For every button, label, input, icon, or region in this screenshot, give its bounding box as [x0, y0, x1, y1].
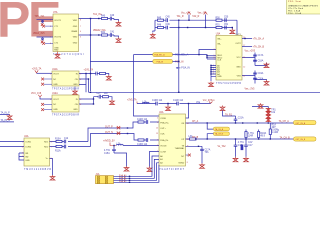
junction: [167, 103, 168, 104]
net label TA_CH_A: [213, 127, 229, 131]
junction: [93, 98, 94, 99]
resistor R26: [100, 72, 106, 74]
capacitor C45: [166, 18, 167, 22]
svg-text:U7A: U7A: [53, 11, 58, 14]
pin numbers U11A: [50, 73, 81, 81]
svg-text:PGA_A3: PGA_A3: [119, 180, 126, 183]
svg-text:C10R 114: C10R 114: [152, 100, 163, 102]
svg-text:C50: C50: [224, 17, 229, 19]
svg-text:U4A: U4A: [24, 135, 29, 138]
svg-text:Vss_-2V5: Vss_-2V5: [245, 89, 256, 91]
ground: [209, 82, 214, 87]
ground: [114, 153, 127, 166]
svg-text:R46: R46: [157, 25, 162, 27]
svg-text:1: 1: [50, 73, 51, 75]
ground: [200, 163, 205, 168]
svg-text:6: 6: [157, 145, 158, 147]
capacitor C11A: [177, 102, 178, 106]
svg-text:TA_CH_B: TA_CH_B: [215, 133, 224, 136]
ferrite mark: [116, 132, 120, 135]
svg-text:TR1: TR1: [271, 110, 276, 112]
wire U11A out right: [79, 74, 96, 93]
capacitor C17A: [253, 55, 257, 56]
regulator U12A: [52, 92, 79, 117]
svg-text:U12A: U12A: [52, 92, 58, 95]
svg-text:4.7TA: 4.7TA: [104, 149, 110, 152]
wire to PGA_IN label: [90, 60, 153, 62]
ground: [7, 114, 12, 119]
ground below U11A: [74, 87, 76, 90]
junction: [98, 34, 99, 35]
svg-text:VOUT1: VOUT1: [54, 20, 62, 22]
svg-text:4: 4: [80, 79, 81, 81]
resistor R41: [102, 34, 108, 36]
resistor R19A between rows: [269, 123, 271, 129]
junction: [178, 20, 179, 21]
svg-text:17: 17: [243, 45, 245, 47]
resistor R10A: [56, 140, 62, 142]
ground: [167, 104, 169, 106]
wire PGA_SEL to U3A: [173, 54, 208, 56]
wire A1: [114, 159, 160, 178]
svg-text:C17A: C17A: [205, 148, 211, 151]
wire U2A right lower to ground: [186, 146, 203, 163]
ground: [147, 167, 152, 172]
nc mark: [41, 41, 44, 44]
svg-text:+2V5_TA: +2V5_TA: [127, 99, 137, 102]
capacitor C19A: [253, 73, 257, 74]
wire row A: [186, 122, 294, 124]
svg-text:8: 8: [22, 146, 23, 148]
ground: [150, 33, 155, 38]
resistor R11A: [56, 145, 62, 147]
svg-text:SGND: SGND: [178, 163, 184, 165]
wire A0: [114, 156, 160, 176]
svg-text:20: 20: [243, 37, 245, 39]
svg-text:PD0: C0uA: PD0: C0uA: [288, 12, 302, 15]
svg-text:PGA_SEL_A: PGA_SEL_A: [154, 54, 165, 57]
svg-text:2: 2: [51, 141, 52, 143]
svg-text:C45: C45: [166, 17, 171, 19]
svg-text:OUT1: OUT1: [235, 34, 241, 36]
svg-text:OUT_CH_B: OUT_CH_B: [296, 139, 306, 141]
svg-text:114R: 114R: [248, 136, 254, 138]
wire A2: [114, 163, 160, 181]
svg-text:4: 4: [157, 140, 158, 142]
svg-text:PGA_IN-: PGA_IN-: [160, 139, 168, 142]
svg-text:TA_CH_B: TA_CH_B: [280, 136, 291, 139]
resistor R45: [158, 19, 164, 21]
svg-text:TPs: TPs: [205, 152, 210, 154]
svg-text:PE: PE: [0, 0, 60, 48]
wire: [37, 72, 53, 74]
wire VOCM feed (L1A row): [137, 104, 211, 119]
svg-text:5: 5: [51, 158, 52, 160]
ground: [255, 63, 267, 66]
svg-text:23: 23: [187, 139, 189, 141]
resistor R46: [158, 26, 164, 28]
net label TA_CH_B: [213, 132, 229, 136]
capacitor C31: [41, 38, 44, 40]
wire CLYM to ground: [150, 152, 160, 167]
svg-text:R51: R51: [216, 25, 221, 27]
svg-text:TA1_R: TA1_R: [177, 15, 184, 18]
wire cap bank 1: [242, 53, 255, 66]
svg-text:13: 13: [156, 133, 158, 135]
svg-text:6: 6: [50, 43, 51, 45]
wire cap bank 2: [242, 71, 255, 84]
svg-text:1.12W: 1.12W: [272, 132, 279, 134]
svg-text:R40: R40: [101, 16, 106, 18]
pin numbers U3A: [213, 65, 214, 75]
svg-text:11: 11: [243, 75, 245, 77]
svg-text:J1A: J1A: [96, 173, 100, 176]
potentiometer R30 (red): [266, 108, 276, 122]
wire vertical: [153, 20, 155, 32]
junction: [235, 138, 236, 139]
wire vertical +2V5 rail: [90, 19, 92, 92]
svg-text:4: 4: [80, 31, 81, 33]
svg-text:PGA870IRHDT: PGA870IRHDT: [159, 168, 185, 171]
capacitor C51: [225, 26, 226, 30]
net tag PGA_IN on vertical: [176, 67, 180, 69]
capacitor C21A above row A: [234, 116, 238, 123]
net label PGA_SEL_A: [153, 53, 173, 57]
svg-text:IN1-: IN1-: [217, 44, 221, 46]
capacitor C15A2: [146, 138, 147, 142]
svg-text:TA_R1: TA_R1: [225, 113, 233, 116]
resistor R27: [103, 96, 109, 98]
wire: [40, 97, 52, 99]
svg-text:1: 1: [50, 19, 51, 21]
svg-text:CLYM: CLYM: [160, 152, 166, 154]
capacitor C10A: [156, 102, 157, 106]
svg-text:C46: C46: [166, 24, 171, 26]
wire VIN1 row: [79, 18, 102, 20]
capacitor C30: [41, 21, 44, 23]
net label PGA_IN: [153, 59, 173, 63]
svg-text:OUT_P: OUT_P: [105, 126, 113, 128]
pin numbers U12A: [50, 99, 81, 106]
svg-text:C12: C12: [64, 138, 69, 140]
svg-text:GND: GND: [217, 76, 222, 78]
junction: [207, 138, 208, 139]
resistor R32 between rows: [258, 132, 260, 138]
svg-text:CLK: CLK: [217, 59, 222, 61]
svg-text:TMUX1219DBVR: TMUX1219DBVR: [24, 169, 51, 171]
svg-text:CH_B: CH_B: [192, 137, 199, 139]
node PGA_A0: [119, 174, 126, 183]
svg-text:11: 11: [187, 145, 189, 147]
resistor R40: [102, 17, 108, 19]
svg-text:+2V5_TA: +2V5_TA: [84, 69, 94, 72]
capacitor C18A: [253, 60, 257, 61]
ground: [233, 157, 238, 162]
ground: [244, 157, 249, 162]
wire to potentiometer: [252, 107, 268, 108]
wire to ground: [109, 97, 113, 100]
wire to ground: [106, 74, 109, 76]
power arrow: [38, 95, 41, 97]
svg-text:U2A: U2A: [159, 111, 164, 114]
note box (top right): [287, 0, 320, 15]
wire NO1 out: [50, 128, 128, 142]
svg-text:C21A: C21A: [238, 117, 244, 120]
regulator U11A: [52, 68, 79, 91]
wire NO2 out: [50, 134, 128, 147]
power +5V flag: [187, 12, 191, 15]
svg-text:1: 1: [22, 141, 23, 143]
svg-text:GND: GND: [25, 160, 30, 162]
svg-text:C51: C51: [224, 24, 229, 26]
svg-text:24: 24: [187, 123, 189, 125]
svg-text:C27: C27: [97, 93, 102, 95]
svg-text:VCC: VCC: [236, 57, 241, 59]
capacitor C12A: [64, 140, 65, 144]
ground: [116, 37, 121, 42]
svg-text:12: 12: [243, 66, 245, 68]
pin numbers U3A: [214, 37, 246, 77]
svg-text:TPS7A2033PDBVR: TPS7A2033PDBVR: [52, 114, 79, 117]
svg-text:OUT_N: OUT_N: [105, 132, 113, 134]
nc pin stub: [45, 42, 53, 44]
capacitor C27: [98, 95, 103, 99]
resistor R13A: [138, 139, 144, 141]
power -5V flag: [204, 12, 208, 15]
svg-text:VOCM: VOCM: [160, 146, 166, 148]
svg-text:R27: R27: [104, 93, 109, 95]
junction: [198, 54, 199, 55]
svg-text:VOUT: VOUT: [53, 99, 59, 101]
svg-text:L1A: L1A: [143, 100, 148, 103]
svg-text:L2A: L2A: [117, 142, 122, 145]
svg-text:PGA_IN: PGA_IN: [181, 67, 190, 70]
svg-text:PGA_IN: PGA_IN: [157, 61, 164, 64]
nc pin: [41, 108, 44, 111]
junction: [178, 92, 179, 93]
svg-text:4.7TA: 4.7TA: [248, 132, 254, 135]
svg-text:7: 7: [214, 59, 215, 61]
svg-text:49.9: 49.9: [260, 136, 265, 138]
net label OUT_CH_A: [294, 121, 317, 125]
svg-text:U3A: U3A: [216, 33, 221, 36]
wire COM inputs: [0, 142, 24, 161]
svg-text:GND: GND: [53, 109, 58, 111]
wire into U3A top: [232, 20, 237, 35]
net label OUT_CH_B: [294, 137, 317, 141]
wire U12A right: [79, 97, 98, 104]
svg-text:TA2_R: TA2_R: [192, 15, 199, 18]
svg-text:3: 3: [22, 156, 23, 158]
junction: [178, 61, 179, 62]
svg-text:16: 16: [243, 57, 245, 59]
capacitor C46: [166, 26, 167, 30]
nc pin: [41, 103, 44, 106]
capacitor blue blob below row B: [241, 145, 244, 151]
svg-text:Vss_-5V: Vss_-5V: [198, 12, 207, 14]
nc mark: [41, 23, 44, 26]
svg-text:Vs_TA2: Vs_TA2: [218, 145, 227, 148]
svg-text:CH_A: CH_A: [192, 120, 199, 123]
resistor R51 row2: [216, 26, 222, 28]
svg-text:5: 5: [80, 99, 81, 101]
junction: [90, 18, 91, 19]
wire: [37, 36, 54, 39]
inductor L2A: [117, 144, 124, 145]
svg-text:2: 2: [157, 118, 158, 120]
svg-text:GND: GND: [53, 84, 58, 86]
wire stub from label B: [207, 134, 213, 139]
connector J1A: [96, 173, 114, 184]
wire into U2A in-: [128, 134, 160, 141]
svg-text:C40: C40: [110, 15, 115, 17]
svg-text:VBIAS: VBIAS: [71, 30, 78, 33]
inductor L1A: [143, 102, 150, 103]
svg-text:OUT_CH_A: OUT_CH_A: [296, 122, 306, 125]
capacitor C24A: [200, 149, 204, 150]
ground: [57, 52, 59, 54]
svg-text:C15A: C15A: [104, 152, 110, 155]
svg-text:GND: GND: [73, 26, 78, 28]
power arrow down: [35, 70, 38, 73]
capacitor C40: [108, 17, 119, 21]
resistor R12A: [138, 121, 144, 123]
svg-text:4.7TA: 4.7TA: [238, 141, 244, 144]
svg-text:GND: GND: [73, 84, 78, 86]
junction: [206, 55, 207, 56]
wire row B: [186, 138, 294, 140]
capacitor C13A: [64, 145, 65, 149]
inductor L3A on row B: [190, 138, 197, 140]
mux U4A: [24, 135, 51, 171]
svg-text:5: 5: [50, 37, 51, 39]
svg-text:VREF_4V5: VREF_4V5: [33, 33, 45, 35]
wire +2V5 bus horizontal: [89, 91, 320, 93]
svg-text:9: 9: [187, 156, 188, 158]
svg-text:C41: C41: [110, 31, 115, 33]
ground: [255, 79, 267, 82]
svg-text:GND: GND: [236, 67, 241, 69]
wire to PGA_SEL label: [134, 55, 160, 116]
svg-text:+TA_CH_B: +TA_CH_B: [253, 46, 265, 49]
svg-text:VOUT2: VOUT2: [54, 37, 62, 39]
nc pin: [41, 83, 44, 86]
svg-text:PAD: PAD: [54, 49, 59, 52]
svg-text:THS7002CPWPR: THS7002CPWPR: [216, 83, 241, 85]
svg-text:7: 7: [80, 26, 81, 28]
wire PGA_IN to vertical: [173, 60, 179, 62]
svg-text:OUT+: OUT+: [160, 128, 166, 130]
svg-text:R18A: R18A: [260, 132, 266, 135]
svg-text:+AVDD_5V: +AVDD_5V: [103, 140, 115, 143]
wire into U2A in+: [128, 122, 160, 128]
svg-text:COM2: COM2: [25, 147, 32, 149]
capacitor C15A: [112, 149, 116, 153]
svg-text:VCC_1V8: VCC_1V8: [31, 93, 42, 95]
svg-text:PGA_SEL_A: PGA_SEL_A: [175, 54, 189, 57]
wire: [37, 19, 54, 22]
wire row2: [155, 27, 232, 29]
junction: [210, 65, 211, 66]
nc pin stub: [45, 25, 53, 27]
capacitor C50: [225, 18, 226, 22]
svg-text:VSS: VSS: [237, 76, 242, 78]
svg-text:R10A: R10A: [55, 138, 61, 141]
ground above row A: [220, 106, 225, 111]
svg-text:10k: 10k: [271, 112, 276, 114]
svg-text:VOUT: VOUT: [53, 74, 59, 76]
svg-text:C17: C17: [248, 145, 253, 147]
ground: [116, 21, 121, 26]
svg-text:GND: GND: [73, 43, 78, 45]
capacitor C20A: [253, 78, 257, 79]
svg-text:C16: C16: [238, 145, 243, 147]
svg-text:C19A: C19A: [258, 72, 264, 75]
svg-text:Vcc_+2V5: Vcc_+2V5: [245, 51, 256, 53]
nc pin: [41, 78, 44, 81]
svg-text:Vcc_+5V: Vcc_+5V: [181, 12, 191, 14]
svg-text:OUT-: OUT-: [160, 134, 165, 136]
pin numbers U2A: [156, 118, 189, 164]
svg-text:PGA_IN+: PGA_IN+: [160, 122, 169, 125]
svg-text:C11R 114: C11R 114: [173, 100, 184, 102]
svg-text:TA_IN_P: TA_IN_P: [1, 111, 11, 114]
junction: [127, 127, 128, 128]
capacitor C26: [96, 72, 100, 76]
svg-text:4: 4: [22, 153, 23, 155]
svg-text:R11A: R11A: [55, 150, 61, 153]
ground: [106, 75, 111, 80]
svg-text:+TA_CH_A: +TA_CH_A: [253, 38, 265, 41]
svg-text:3: 3: [157, 122, 158, 124]
capacitor C23A below row B: [244, 139, 248, 157]
resistor R50 row1: [216, 19, 222, 21]
svg-text:7: 7: [51, 146, 52, 148]
wire row1: [155, 19, 237, 21]
svg-text:7: 7: [157, 151, 158, 153]
junction: [129, 176, 130, 177]
junction: [113, 145, 114, 146]
svg-text:4: 4: [80, 104, 81, 106]
svg-text:R50: R50: [216, 17, 221, 19]
nc pin U2A: [186, 154, 189, 156]
amplifier U2A: [159, 111, 186, 171]
svg-text:C20A: C20A: [258, 77, 264, 80]
capacitor C22A below row B: [234, 139, 238, 157]
pin numbers U7A: [50, 19, 81, 45]
pin numbers U4A: [22, 141, 52, 160]
svg-text:8: 8: [187, 162, 188, 164]
resistor R31 between rows: [245, 132, 247, 138]
ground small: [258, 103, 263, 108]
svg-text:3: 3: [214, 49, 215, 51]
svg-text:+2V5_TA: +2V5_TA: [32, 67, 42, 70]
svg-text:2: 2: [50, 26, 51, 28]
svg-text:R45: R45: [157, 17, 162, 19]
op-amp U7A: [53, 11, 84, 56]
ground at U3A top: [230, 29, 235, 34]
svg-text:U11A: U11A: [52, 68, 58, 71]
wire address bus U3A: [211, 65, 216, 81]
junction: [235, 122, 236, 123]
capacitor C41: [108, 33, 119, 37]
svg-text:THERMAL: THERMAL: [175, 147, 185, 150]
svg-text:1: 1: [50, 99, 51, 101]
junction: [85, 73, 86, 74]
wire long vertical to bus: [178, 20, 180, 92]
svg-text:8: 8: [80, 19, 81, 21]
svg-text:C18A: C18A: [258, 59, 264, 62]
